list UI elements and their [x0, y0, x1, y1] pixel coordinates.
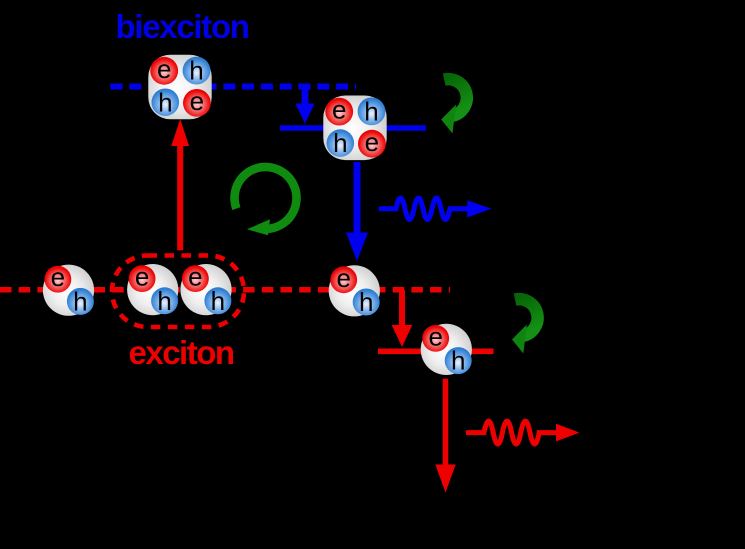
- blue short down arrow: [295, 87, 314, 124]
- red solid level line: [378, 348, 494, 354]
- red wavy photon arrow: [466, 421, 580, 444]
- blue long down arrow: [346, 162, 368, 261]
- svg-text:exciton: exciton: [129, 334, 234, 371]
- red long down arrow: [435, 379, 455, 493]
- exciton ball 2 (inside dashed outline): [127, 262, 178, 316]
- biexciton ball 2 (on blue solid level): [323, 95, 386, 161]
- blue solid level line: [280, 125, 426, 130]
- biexciton ball 1 (upper, on blue dashed level): [148, 54, 211, 120]
- big green circular arrow: [235, 167, 297, 235]
- biexciton energy level (blue dashed line): [111, 84, 357, 90]
- exciton ball 1 on dashed level: [43, 262, 94, 316]
- blue wavy photon arrow: [379, 198, 492, 220]
- exciton energy level (red dashed line): [0, 287, 450, 293]
- exciton ball 4 on dashed level: [329, 263, 380, 317]
- exciton ball 5 on red solid level: [421, 321, 472, 375]
- red short down arrow: [392, 290, 413, 347]
- red up arrow: [171, 119, 189, 250]
- green crescent arrow mid right: [512, 299, 538, 353]
- exciton ball 3 (inside dashed outline): [180, 262, 231, 316]
- svg-text:biexciton: biexciton: [116, 8, 249, 45]
- dashed stadium around exciton pair: [112, 256, 244, 328]
- green crescent arrow top right: [441, 79, 467, 133]
